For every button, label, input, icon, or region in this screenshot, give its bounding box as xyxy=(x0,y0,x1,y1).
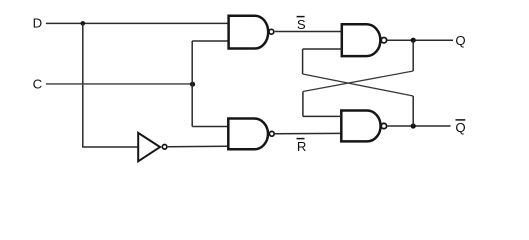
svg-text:S: S xyxy=(297,17,306,32)
wire gate3 output to Q xyxy=(387,39,453,41)
wire inverter output to gate2 lower input xyxy=(168,145,229,148)
svg-text:Q: Q xyxy=(455,120,465,135)
wire D branch vertical xyxy=(82,23,84,147)
node Q junction xyxy=(411,38,416,43)
wire feedback Q-bar diagonal to right xyxy=(303,74,414,96)
wire C to gate2 upper input xyxy=(192,126,228,128)
NAND gate G2 (bottom input gate) xyxy=(228,119,274,150)
wire D branch to inverter xyxy=(82,146,138,148)
wire feedback Q-bar into gate3 lower input xyxy=(303,48,342,50)
output label Q-bar xyxy=(455,120,465,135)
svg-text:R: R xyxy=(297,139,307,154)
wire feedback Q-bar left vertical xyxy=(302,49,304,74)
wire C input xyxy=(46,83,192,85)
wire R-bar: gate2 output to gate4 input xyxy=(275,132,341,134)
net label S-bar xyxy=(297,17,306,32)
svg-text:D: D xyxy=(33,16,43,31)
inverter (NOT gate) xyxy=(138,133,167,161)
svg-text:Q: Q xyxy=(455,33,465,48)
NAND gate G4 (latch bottom) xyxy=(341,111,386,142)
wire feedback Q left vertical xyxy=(302,92,304,117)
wire feedback Q diagonal to left xyxy=(303,71,413,92)
svg-text:C: C xyxy=(33,76,43,91)
wire C branch vertical xyxy=(191,41,193,127)
wire feedback Q vertical drop xyxy=(412,40,414,71)
node D junction xyxy=(81,21,86,26)
wire D input xyxy=(46,22,229,24)
wire feedback Q into gate4 upper input xyxy=(303,115,341,117)
node Q-bar junction xyxy=(411,123,416,128)
NAND gate G3 (latch top) xyxy=(342,24,387,56)
wire S-bar: gate1 output to gate3 input xyxy=(275,31,342,33)
net label R-bar xyxy=(297,139,307,154)
wire feedback Q-bar right vertical xyxy=(412,96,414,126)
node C junction xyxy=(190,82,195,87)
wire C to gate1 lower input xyxy=(192,40,228,42)
wire gate4 output to Q-bar xyxy=(387,125,450,127)
NAND gate G1 (top input gate) xyxy=(229,16,274,49)
